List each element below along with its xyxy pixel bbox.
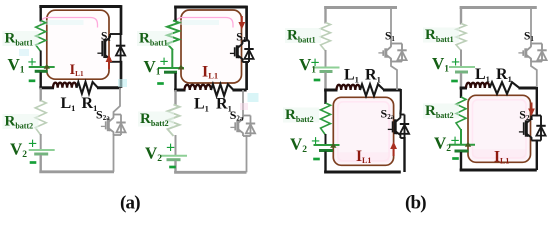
current loop IL1 path (circuit 2) [181,10,242,83]
minus sign V1 (circuit 4) [451,80,458,83]
label R1 (circuit 3) [365,67,381,85]
svg-text:(a): (a) [120,193,140,214]
loop arrowhead at battery crossing (circuit 4) [465,142,471,147]
label R_batt2 (circuit 2) [138,111,174,128]
wire middle branch right (circuit 4) [519,87,537,90]
battery V1 plates (circuit 1) [29,67,55,71]
label R_batt2 (circuit 1) [3,114,39,131]
current loop IL1 path (circuit 4) [468,95,531,162]
resistor R_batt1 (circuit 1) [36,21,46,52]
label (a) [120,193,140,214]
label V1 (circuit 2) [144,57,161,78]
svg-text:+: + [28,135,37,152]
cyan artifact band (circuit 1) [41,20,84,25]
wire top-left vertical (circuit 4) [460,8,462,25]
wire switch S2a top lead (circuit 3) [399,89,402,115]
resistor R_batt2 (circuit 2) [168,105,180,137]
wire battery V1 to node (circuit 3) [324,73,326,91]
artifact cyan ghost near C1 V1 [19,49,29,56]
wire top-right edge lower (circuit 2) [245,61,248,90]
minus sign V2 (circuit 4) [452,157,459,160]
wire bottom edge (circuit 3) [324,171,401,174]
label R_batt1 (circuit 3) [285,28,321,45]
transistor S1 IGBT with diode (circuit 3) [378,44,406,62]
current direction arrow (circuit 2) [238,16,245,30]
label S2a (circuit 1) [96,107,110,122]
wire top-right edge upper (circuit 1) [120,5,123,35]
wire switch S2a bottom lead (circuit 4) [536,140,538,171]
battery V2 plates (circuit 3) [314,145,340,151]
transistor S1 IGBT with diode (circuit 2) [230,41,254,63]
battery V1 plates (circuit 2) [158,68,184,72]
svg-text:+: + [311,133,320,150]
wire resistor-to-battery V1 (circuit 1) [40,51,42,68]
wire resistor-to-battery V2 (circuit 2) [175,135,177,156]
wire middle branch left (circuit 4) [460,87,467,90]
wire switch S2a top lead (circuit 4) [536,87,538,117]
label S2a (circuit 4) [519,108,533,123]
svg-text:+: + [27,54,36,71]
wire top-left vertical (circuit 3) [324,8,326,24]
wire middle branch right (circuit 2) [233,89,247,92]
minus sign V1 (circuit 1) [29,79,36,82]
label S1 (circuit 2) [236,32,246,45]
label IL1 (circuit 1) [70,62,84,78]
resistor R_batt1 (circuit 4) [456,24,466,51]
label IL1 (circuit 2) [202,64,218,81]
label V1 (circuit 3) [299,55,316,76]
minus sign V1 (circuit 3) [314,79,321,82]
wire battery V1 to node (circuit 1) [40,72,42,88]
label L1 (circuit 3) [344,67,359,85]
wire top edge (circuit 4) [460,6,537,9]
wire resistor-to-battery V2 (circuit 3) [325,134,327,145]
transistor S1 IGBT with diode (circuit 1) [97,34,125,62]
label L1 (circuit 1) [61,95,76,113]
plus sign V1 (circuit 3) [310,54,319,71]
wire middle branch left (circuit 3) [324,89,337,92]
wire switch S1 bottom lead (circuit 4) [531,61,537,89]
battery V1 plates (circuit 4) [449,67,475,72]
wire top-right edge upper (circuit 2) [245,6,248,42]
minus sign V2 (circuit 2) [169,166,176,169]
label R_batt1 (circuit 4) [423,27,459,44]
wire bottom-left upper (circuit 2) [174,90,176,106]
label V2 (circuit 1) [10,140,27,161]
wire middle branch right (circuit 3) [383,89,401,92]
wire resistor-to-battery V1 (circuit 2) [171,49,173,68]
minus sign V1 (circuit 2) [157,82,164,85]
battery V2 plates (circuit 4) [449,145,475,151]
wire top edge (circuit 3) [324,6,397,9]
resistor R_batt2 (circuit 1) [35,101,46,136]
minus sign V2 (circuit 1) [30,161,37,164]
wire switch S1 top lead (circuit 3) [390,8,392,45]
pink artifact line (circuit 2) [176,18,234,28]
wire resistor-to-battery V1 (circuit 4) [460,50,462,68]
inductor L1 (circuit 4) [466,83,490,88]
resistor R_batt1 (circuit 3) [321,23,331,52]
label V1 (circuit 4) [432,54,449,75]
transistor S2a IGBT with diode (circuit 2) [230,116,255,137]
inductor L1 (circuit 2) [185,85,212,90]
wire middle branch right (circuit 1) [97,86,121,89]
svg-text:+: + [159,53,168,70]
artifact cyan ghost near C1 branch [118,79,127,87]
current direction arrow (circuit 1) [106,55,113,70]
wire resistor-to-battery V1 (circuit 3) [325,50,327,68]
label IL1 (circuit 4) [494,149,509,166]
loop arrowhead at battery crossing (circuit 2) [178,65,184,70]
label V1 (circuit 1) [8,55,25,76]
label IL1 (circuit 3) [356,148,371,165]
label L1 (circuit 2) [194,96,209,114]
wire middle branch left (circuit 2) [174,89,185,92]
label V2 (circuit 3) [290,135,307,156]
artifact pink ghost near C2 S2a [240,103,248,110]
plus sign V2 (circuit 2) [166,139,175,156]
wire switch S2a bottom lead (circuit 3) [403,137,405,172]
wire bottom-left upper (circuit 4) [460,88,462,98]
label S2a (circuit 2) [230,108,244,123]
label R1 (circuit 2) [216,96,232,114]
wire top-right edge lower (circuit 1) [120,61,123,88]
wire battery V2 to bottom corner (circuit 2) [174,161,176,173]
current loop IL1 path (circuit 3) [333,97,393,165]
resistor R_batt1 (circuit 2) [167,21,179,51]
wire bottom-left upper (circuit 1) [40,88,42,102]
label L1 (circuit 4) [475,66,490,84]
label V2 (circuit 4) [434,134,451,155]
wire top-left vertical (circuit 2) [174,7,176,22]
battery V2 plates (circuit 2) [161,156,187,160]
label R_batt1 (circuit 2) [137,31,173,48]
minus sign V2 (circuit 3) [313,158,320,161]
inductor L1 (circuit 1) [53,83,77,88]
transistor S2a IGBT with diode (circuit 1) [101,115,126,136]
current loop IL1 path (circuit 1) [47,10,109,79]
wire middle branch left (circuit 1) [39,86,54,89]
wire battery V1 to node (circuit 4) [460,73,462,88]
label R_batt2 (circuit 3) [283,107,319,124]
battery V2 plates (circuit 1) [29,150,55,154]
resistor R1 (circuit 4) [490,82,520,94]
transistor S1 IGBT with diode (circuit 4) [518,44,546,62]
plus sign V1 (circuit 4) [451,54,460,71]
wire bottom edge (circuit 2) [174,171,246,174]
wire top edge (circuit 1) [39,5,121,8]
svg-text:+: + [166,139,175,156]
wire switch S2a bottom lead (circuit 1) [113,134,115,172]
loop arrowhead at battery crossing (circuit 3) [330,143,336,148]
svg-text:+: + [450,132,459,149]
label S2a (circuit 3) [381,106,395,121]
plus sign V2 (circuit 1) [28,135,37,152]
resistor R1 (circuit 1) [77,82,99,94]
wire bottom-left upper (circuit 3) [324,90,326,104]
wire switch S2a bottom lead (circuit 2) [246,135,248,172]
plus sign V2 (circuit 4) [450,132,459,149]
wire battery V2 to bottom corner (circuit 4) [460,152,462,170]
wire top edge (circuit 2) [174,6,247,9]
plus sign V1 (circuit 1) [27,54,36,71]
svg-text:+: + [451,54,460,71]
resistor R_batt2 (circuit 3) [321,103,331,135]
resistor R1 (circuit 3) [360,84,384,96]
resistor R1 (circuit 2) [211,84,234,96]
wire resistor-to-battery V2 (circuit 4) [460,129,462,145]
label S1 (circuit 4) [524,31,534,44]
wire switch S1 top lead (circuit 4) [530,8,532,45]
battery V1 plates (circuit 3) [314,68,340,72]
current direction arrow (circuit 3) [390,142,397,157]
wire resistor-to-battery V2 (circuit 1) [40,134,42,150]
plus sign V2 (circuit 3) [311,133,320,150]
wire switch S2a top lead (circuit 2) [242,90,244,117]
plus sign V1 (circuit 2) [159,53,168,70]
wire switch S2a top lead (circuit 1) [114,88,121,115]
inductor L1 (circuit 3) [337,85,361,90]
label R1 (circuit 1) [82,95,98,113]
wire top-left vertical (circuit 1) [40,7,42,22]
label R1 (circuit 4) [496,66,512,84]
wire switch S1 bottom lead (circuit 3) [391,61,397,91]
wire battery V1 to node (circuit 2) [174,73,176,90]
wire bottom edge (circuit 1) [39,170,114,173]
label S1 (circuit 3) [385,31,395,44]
label (b) [405,193,426,214]
label R_batt2 (circuit 4) [423,103,459,120]
transistor S2a IGBT with diode (circuit 4) [519,116,546,141]
loop arrowhead at battery crossing (circuit 1) [44,64,50,69]
label S1 (circuit 1) [101,30,111,43]
current direction arrow (circuit 4) [528,103,535,117]
wire bottom edge (circuit 4) [460,169,537,172]
cyan artifact band (circuit 2) [176,20,220,25]
label V2 (circuit 2) [145,144,162,165]
label R_batt1 (circuit 1) [3,31,39,48]
pink artifact line (circuit 1) [41,18,98,28]
svg-text:(b): (b) [405,193,426,214]
wire battery V2 to bottom corner (circuit 3) [324,152,326,173]
resistor R_batt2 (circuit 4) [456,97,466,130]
artifact cyan ghost near C2 branch [248,93,259,102]
wire battery V2 to bottom corner (circuit 1) [40,155,42,172]
transistor S2a IGBT with diode (circuit 3) [388,115,409,139]
